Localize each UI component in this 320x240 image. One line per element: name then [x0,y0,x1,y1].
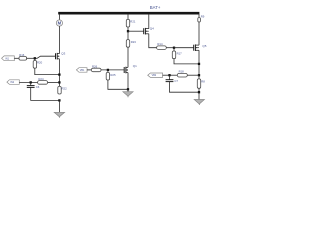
resistor R14 [157,46,167,50]
resistor R17 [172,48,175,59]
wire R8 to ground [198,88,200,99]
svg-text:R21: R21 [130,20,136,24]
ground middle [123,92,133,98]
resistor R16 [19,57,27,61]
svg-text:R25: R25 [110,73,116,77]
svg-text:Q4: Q4 [150,26,154,30]
junction J3 [58,99,60,101]
svg-text:IN2: IN2 [10,81,14,84]
wire rail to R9 [198,14,200,18]
wire to mid ground [127,89,129,91]
svg-text:R9: R9 [201,14,205,18]
junction S2 [198,74,200,76]
junction S1 [198,63,200,65]
svg-text:IN1: IN1 [5,57,9,60]
svg-text:R20: R20 [37,61,43,65]
wire port VB1 to R26 [87,69,91,71]
wire R18 to S2 [187,74,199,76]
svg-text:R14: R14 [157,42,163,46]
wire C6 to bottom [31,88,60,101]
wire R14 to node R [166,47,174,49]
resistor R23 [126,31,129,47]
wire node A to Q3 gate [35,56,56,58]
svg-text:R26: R26 [92,64,98,68]
resistor R21 [126,19,129,27]
wire R9 to Q5 drain [198,22,200,45]
transistor Q3 [56,53,60,60]
port IN2 [7,80,19,85]
wire C7 to right ground node [170,82,200,92]
svg-text:BAT+: BAT+ [150,5,161,10]
junction J2 [58,81,60,83]
svg-text:VB2: VB2 [152,74,157,77]
wire rail to R21 [127,14,129,19]
junction mid ground [127,88,129,90]
wire node A to R20 [34,58,36,60]
wire R17 to Q5 source line [174,59,199,64]
resistor R9 [198,18,201,22]
resistor R26 [91,68,101,72]
ground left [54,112,64,118]
transistor Q1 [124,67,128,74]
svg-text:M: M [58,21,62,26]
node A junction [34,57,36,59]
node D junction [107,69,109,71]
junction right ground [198,91,200,93]
capacitor C7 [166,75,174,81]
resistor R24 [38,81,48,85]
svg-text:R18: R18 [179,70,185,74]
wire J3 to ground [58,100,60,112]
svg-text:C7: C7 [174,79,178,83]
wire R20 to left column [35,68,60,75]
svg-text:R8: R8 [201,79,205,83]
wire Q4 drain to rail [148,14,150,29]
port IN1 [2,56,15,61]
wire Q5 source down [198,50,200,79]
svg-text:R23: R23 [131,40,137,44]
capacitor C6 [27,82,35,87]
resistor R20 [33,61,36,69]
svg-text:Q3: Q3 [61,51,65,55]
svg-text:R17: R17 [177,51,183,55]
wire node R to Q5 gate [174,47,194,49]
svg-text:R22: R22 [62,87,68,91]
wire R24 to J2 [48,81,60,83]
wire R26 to node D [101,69,124,71]
transistor Q5 [194,44,199,51]
resistor R25 [106,70,109,80]
svg-text:R16: R16 [19,53,25,57]
wire R25 to mid ground node [108,80,128,89]
port VB1 [76,68,87,73]
node B junction [30,81,32,83]
svg-text:VB1: VB1 [80,69,85,72]
ground right [194,100,204,106]
transistor Q4 [144,28,149,35]
wire rail to motor M1 [58,14,60,20]
motor M1 [56,20,62,26]
resistor R18 [177,73,187,77]
wire port IN2 to node B [19,81,37,83]
port VB2 [148,73,163,77]
wire node M to Q4 gate [128,30,144,32]
svg-text:R24: R24 [38,77,44,81]
resistor R8 [197,79,200,88]
svg-text:C6: C6 [36,85,40,89]
svg-text:Q5: Q5 [202,44,206,48]
wire port VB2 to node P [163,74,178,76]
power rail BAT+ [58,12,199,15]
wire motor to Q3 drain [58,26,60,53]
wire Q3 source down [58,59,60,87]
wire R16 to node A [27,57,35,59]
resistor R22 [58,86,61,94]
wire port IN1 to R16 [14,57,19,59]
wire R23 to Q1 drain [127,47,129,67]
node P junction [168,74,170,76]
wire Q1 source down [127,73,129,90]
node R junction [173,47,175,49]
wire R21 to node M [127,27,129,31]
node M junction [127,30,129,32]
junction J1 [58,73,60,75]
wire Q4 source to R14 [149,34,157,48]
svg-text:Q1: Q1 [133,64,137,68]
